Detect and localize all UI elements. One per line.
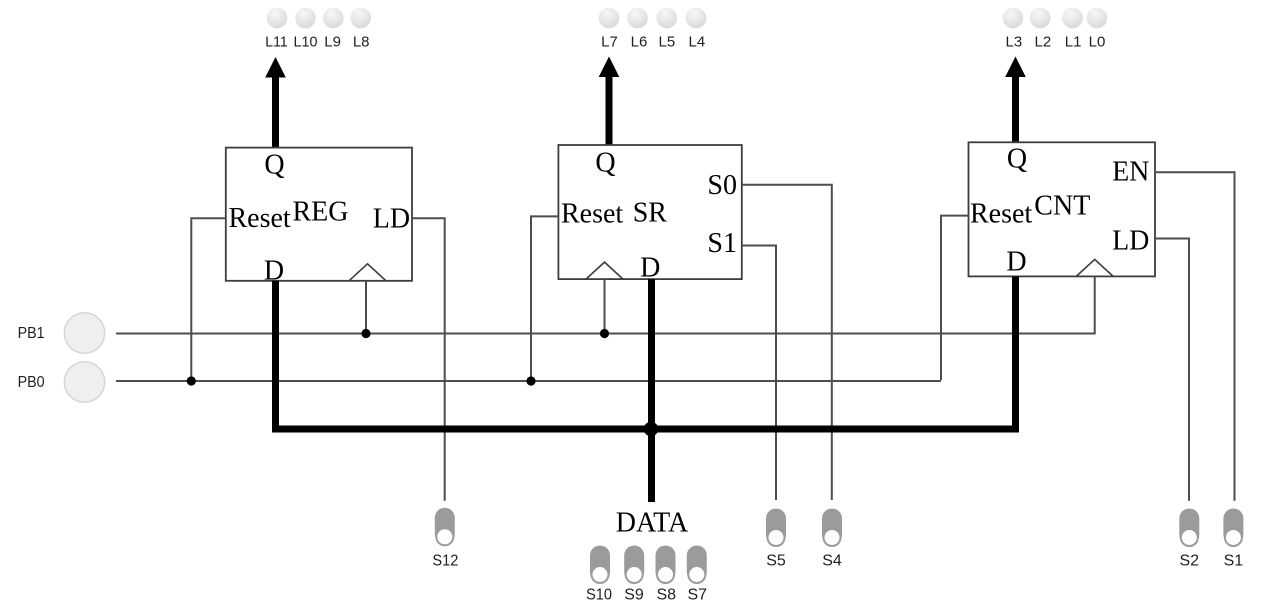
svg-text:L0: L0 <box>1089 33 1106 50</box>
svg-text:S1: S1 <box>1224 552 1244 569</box>
junction DATA bus <box>644 422 659 437</box>
wire PB1 net horizontal <box>116 333 1095 335</box>
svg-text:L1: L1 <box>1065 33 1082 50</box>
bus arrow SR Q to LEDs <box>599 57 620 147</box>
svg-text:S12: S12 <box>432 552 458 569</box>
counter block CNT <box>969 142 1156 276</box>
LED L3 <box>1003 8 1024 29</box>
svg-text:S9: S9 <box>624 587 644 604</box>
svg-text:L8: L8 <box>353 33 370 50</box>
wire SR clock to PB1 <box>604 279 606 333</box>
svg-text:REG: REG <box>293 197 349 228</box>
svg-text:L10: L10 <box>294 33 318 50</box>
svg-text:LD: LD <box>373 204 410 235</box>
LED L5 <box>657 8 678 29</box>
svg-text:S8: S8 <box>657 587 677 604</box>
wire PB0 net horizontal <box>116 380 941 382</box>
LED L8 <box>350 8 371 29</box>
svg-text:Q: Q <box>264 150 284 181</box>
svg-text:PB0: PB0 <box>18 374 45 391</box>
push button PB0 <box>64 362 104 402</box>
wire SR Reset to PB0 <box>531 216 558 381</box>
svg-text:D: D <box>640 253 660 284</box>
wire CNT LD to switch S2 <box>1155 239 1189 501</box>
switch S10 <box>590 546 610 584</box>
bus arrow REG Q to LEDs <box>265 57 286 148</box>
svg-text:Reset: Reset <box>561 199 623 230</box>
LED L6 <box>627 8 648 29</box>
switch S12 <box>435 508 455 546</box>
junction PB1 / SR clock <box>600 329 609 338</box>
wire REG clock to PB1 <box>365 281 367 334</box>
LED L2 <box>1030 8 1051 29</box>
svg-text:Reset: Reset <box>229 203 291 234</box>
switch S1 <box>1223 509 1243 547</box>
switch S7 <box>687 546 707 584</box>
CNT clock input triangle <box>1076 259 1113 276</box>
wire CNT clock to PB1 <box>1094 276 1096 334</box>
wire REG LD to switch S12 <box>412 218 445 501</box>
shift register block SR <box>558 145 741 279</box>
wire SR S0 to switch S4 <box>742 185 832 500</box>
svg-text:L7: L7 <box>601 33 618 50</box>
switch S5 <box>766 509 786 547</box>
svg-text:PB1: PB1 <box>18 325 45 342</box>
LED L0 <box>1087 8 1108 29</box>
svg-text:S0: S0 <box>707 170 737 201</box>
DATA bus main run REG D to CNT D <box>276 276 1016 429</box>
LED L9 <box>323 8 344 29</box>
svg-text:S2: S2 <box>1180 552 1200 569</box>
register block REG <box>226 148 412 281</box>
svg-text:DATA: DATA <box>616 507 689 538</box>
svg-text:L6: L6 <box>631 33 648 50</box>
LED L11 <box>267 8 288 29</box>
DATA bus branch SR D down to DATA stub <box>648 279 655 502</box>
switch S8 <box>656 546 676 584</box>
svg-text:SR: SR <box>633 197 668 228</box>
LED L10 <box>295 8 316 29</box>
bus arrow CNT Q to LEDs <box>1005 57 1026 143</box>
svg-text:LD: LD <box>1112 225 1149 256</box>
svg-text:L9: L9 <box>324 33 341 50</box>
svg-text:Q: Q <box>595 148 615 179</box>
push button PB1 <box>64 313 104 353</box>
switch S2 <box>1179 509 1199 547</box>
svg-text:Reset: Reset <box>970 199 1032 230</box>
REG clock input triangle <box>349 264 386 281</box>
LED L1 <box>1062 8 1083 29</box>
svg-text:CNT: CNT <box>1034 190 1090 221</box>
LED L7 <box>599 8 620 29</box>
wire REG Reset to PB0 <box>191 218 226 381</box>
svg-text:L11: L11 <box>265 33 288 50</box>
svg-text:S4: S4 <box>822 552 842 569</box>
svg-text:L5: L5 <box>659 33 676 50</box>
junction PB1 / REG clock <box>361 329 370 338</box>
wire SR S1 to switch S5 <box>742 246 776 501</box>
svg-text:Q: Q <box>1007 144 1027 175</box>
LED L4 <box>686 8 707 29</box>
switch S4 <box>822 509 842 547</box>
svg-text:L3: L3 <box>1006 33 1023 50</box>
svg-text:S7: S7 <box>688 587 708 604</box>
switch S9 <box>624 546 644 584</box>
svg-text:S5: S5 <box>766 552 786 569</box>
svg-text:L2: L2 <box>1035 33 1052 50</box>
SR clock input triangle <box>586 262 623 279</box>
svg-text:EN: EN <box>1112 157 1149 188</box>
junction PB0 / REG Reset <box>187 376 196 385</box>
wire CNT Reset to PB0 <box>941 216 969 380</box>
wire CNT EN to switch S1 <box>1155 172 1235 500</box>
svg-text:S1: S1 <box>707 228 737 259</box>
svg-text:D: D <box>1006 247 1026 278</box>
junction PB0 / SR Reset <box>526 376 535 385</box>
svg-text:S10: S10 <box>586 587 612 604</box>
svg-text:L4: L4 <box>689 33 706 50</box>
